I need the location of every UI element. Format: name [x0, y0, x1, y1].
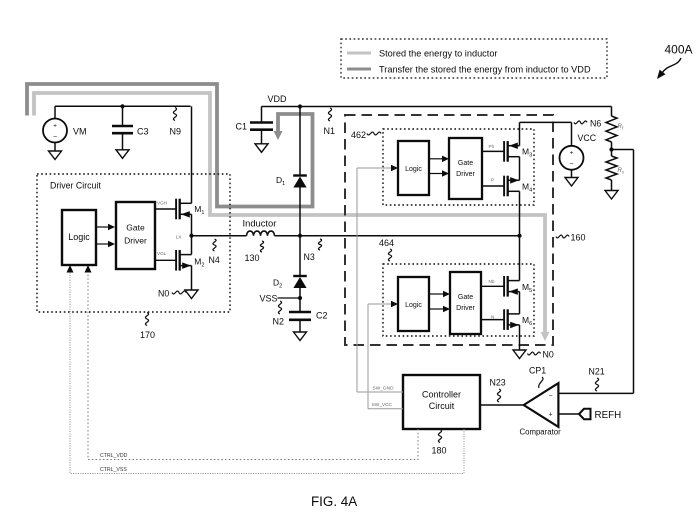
- svg-text:C2: C2: [316, 311, 328, 321]
- svg-text:400A: 400A: [665, 43, 693, 57]
- svg-text:CP1: CP1: [529, 366, 546, 376]
- svg-text:N: N: [491, 314, 494, 319]
- svg-text:VDD: VDD: [268, 94, 288, 104]
- svg-text:SW_VCC: SW_VCC: [372, 402, 393, 408]
- svg-text:P: P: [491, 178, 494, 183]
- svg-text:Logic: Logic: [405, 166, 422, 173]
- svg-text:Gate: Gate: [458, 294, 473, 301]
- svg-text:170: 170: [140, 330, 155, 340]
- svg-text:464: 464: [379, 238, 394, 248]
- svg-text:+: +: [548, 412, 552, 419]
- svg-text:−: −: [548, 393, 552, 400]
- svg-text:Comparator: Comparator: [520, 428, 562, 437]
- svg-text:−: −: [53, 134, 57, 141]
- svg-text:Rf: Rf: [618, 124, 624, 131]
- svg-text:180: 180: [432, 446, 447, 456]
- svg-text:Driver Circuit: Driver Circuit: [50, 181, 101, 191]
- svg-text:N3: N3: [304, 252, 315, 262]
- svg-text:VM: VM: [73, 127, 87, 137]
- svg-text:FIG. 4A: FIG. 4A: [311, 494, 357, 509]
- svg-text:C1: C1: [236, 122, 248, 132]
- svg-text:VSS: VSS: [260, 294, 278, 304]
- svg-text:CTRL_VSS: CTRL_VSS: [100, 467, 127, 473]
- svg-text:462: 462: [351, 130, 366, 140]
- svg-text:CTRL_VDD: CTRL_VDD: [100, 453, 128, 459]
- svg-text:Driver: Driver: [124, 236, 147, 246]
- svg-text:N6: N6: [590, 119, 601, 129]
- svg-text:Gate: Gate: [458, 160, 473, 167]
- svg-text:Driver: Driver: [456, 171, 475, 178]
- svg-text:N23: N23: [490, 378, 506, 388]
- svg-text:SW_GND: SW_GND: [373, 386, 395, 392]
- svg-text:Stored the energy to inductor: Stored the energy to inductor: [379, 49, 498, 59]
- svg-text:N0: N0: [158, 289, 169, 299]
- svg-text:N1: N1: [324, 126, 336, 136]
- svg-text:Rs: Rs: [618, 168, 625, 175]
- svg-text:N4: N4: [209, 255, 220, 265]
- svg-text:VCC: VCC: [578, 133, 597, 143]
- svg-text:Logic: Logic: [68, 232, 90, 242]
- svg-text:VGH: VGH: [157, 201, 167, 206]
- svg-text:Controller: Controller: [422, 390, 461, 400]
- svg-text:Ph: Ph: [489, 144, 495, 149]
- svg-text:Driver: Driver: [456, 305, 475, 312]
- svg-text:−: −: [569, 161, 573, 168]
- svg-text:Transfer the stored the energy: Transfer the stored the energy from indu…: [379, 65, 591, 75]
- svg-text:REFH: REFH: [595, 410, 622, 421]
- svg-text:N9: N9: [170, 127, 182, 137]
- svg-text:N21: N21: [589, 367, 605, 377]
- svg-text:N0: N0: [543, 350, 554, 360]
- svg-text:LX: LX: [176, 234, 182, 239]
- svg-text:+: +: [570, 150, 574, 157]
- svg-text:130: 130: [245, 253, 260, 263]
- svg-text:Logic: Logic: [405, 302, 422, 309]
- svg-text:+: +: [53, 122, 57, 129]
- svg-text:VGL: VGL: [157, 251, 167, 256]
- svg-text:Circuit: Circuit: [429, 401, 455, 411]
- svg-text:Nb: Nb: [489, 279, 495, 284]
- svg-text:Inductor: Inductor: [243, 218, 277, 229]
- svg-text:Gate: Gate: [126, 223, 145, 233]
- svg-text:C3: C3: [137, 127, 149, 137]
- svg-text:N2: N2: [273, 317, 285, 327]
- svg-text:160: 160: [571, 233, 586, 243]
